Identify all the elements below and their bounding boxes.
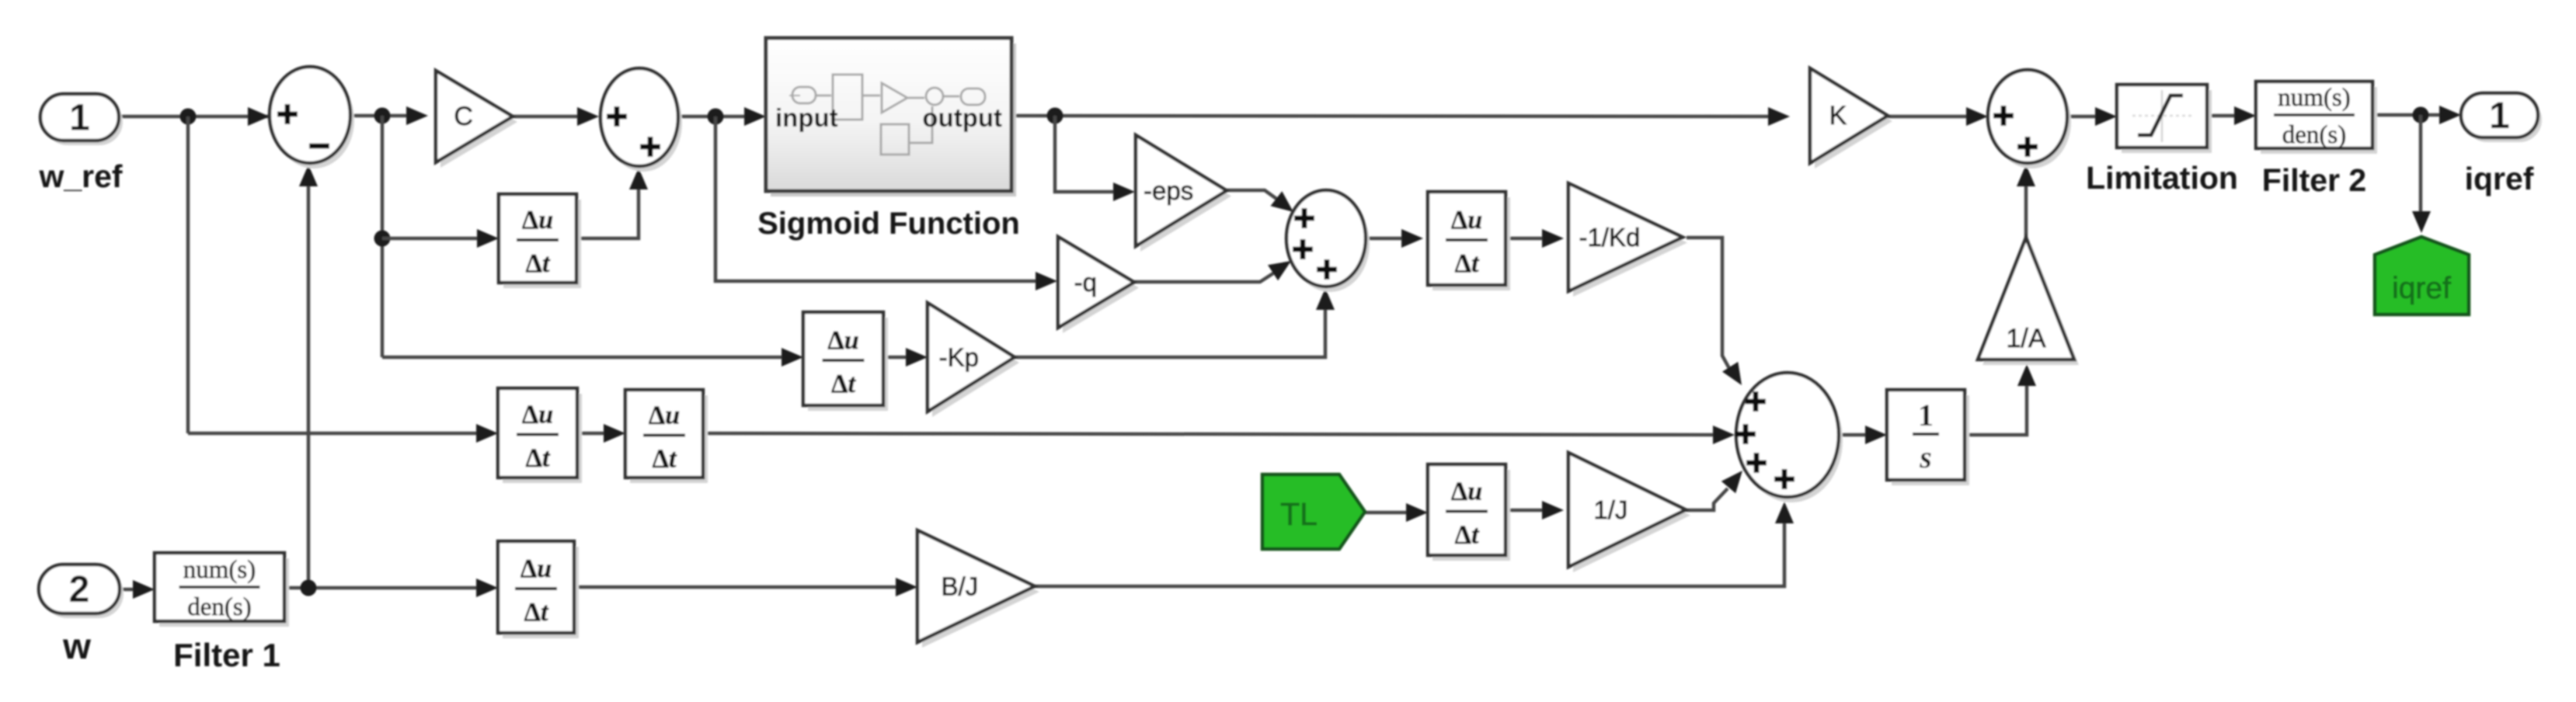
svg-text:TL: TL [1280, 496, 1318, 532]
svg-text:Δu: Δu [649, 401, 680, 430]
svg-text:Sigmoid Function: Sigmoid Function [757, 207, 1020, 241]
svg-text:1: 1 [69, 98, 90, 139]
svg-text:den(s): den(s) [2282, 121, 2346, 149]
svg-text:Δt: Δt [1455, 249, 1480, 278]
svg-text:2: 2 [69, 569, 90, 610]
svg-text:Filter 1: Filter 1 [173, 637, 280, 673]
svg-text:w: w [62, 626, 91, 666]
svg-text:s: s [1919, 440, 1932, 474]
svg-text:den(s): den(s) [187, 593, 251, 621]
svg-text:Δu: Δu [827, 326, 858, 355]
svg-text:-eps: -eps [1144, 176, 1193, 205]
svg-text:iqref: iqref [2392, 272, 2451, 305]
svg-text:1: 1 [2489, 96, 2510, 137]
svg-text:-q: -q [1074, 268, 1097, 297]
svg-text:Δt: Δt [524, 598, 549, 627]
svg-text:B/J: B/J [942, 572, 979, 601]
svg-text:input: input [775, 103, 838, 132]
svg-text:Δu: Δu [522, 206, 553, 235]
svg-text:1/J: 1/J [1593, 495, 1627, 524]
svg-text:-Kp: -Kp [939, 343, 979, 372]
svg-text:K: K [1829, 101, 1847, 130]
svg-text:Δt: Δt [526, 249, 551, 278]
svg-text:1: 1 [1918, 398, 1934, 433]
svg-text:iqref: iqref [2465, 161, 2534, 196]
svg-text:Δu: Δu [1451, 206, 1482, 235]
svg-text:w_ref: w_ref [38, 158, 122, 194]
svg-text:output: output [922, 103, 1002, 132]
svg-text:Δt: Δt [1455, 521, 1480, 550]
svg-text:num(s): num(s) [183, 556, 256, 584]
svg-text:1/A: 1/A [2006, 324, 2045, 353]
svg-text:num(s): num(s) [2278, 84, 2351, 112]
svg-text:C: C [454, 102, 473, 131]
svg-text:-1/Kd: -1/Kd [1579, 223, 1640, 252]
svg-text:Δu: Δu [522, 401, 553, 429]
svg-text:Filter 2: Filter 2 [2262, 162, 2366, 198]
svg-text:Δt: Δt [653, 445, 677, 474]
svg-text:Δt: Δt [526, 444, 551, 473]
svg-text:Limitation: Limitation [2086, 160, 2238, 196]
svg-text:Δu: Δu [1451, 478, 1482, 506]
svg-text:Δt: Δt [831, 370, 856, 398]
svg-text:Δu: Δu [520, 554, 552, 583]
